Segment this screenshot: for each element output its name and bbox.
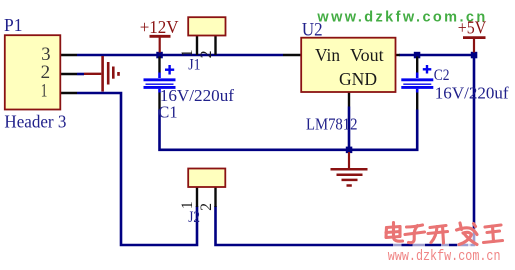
svg-text:1: 1 [179,49,196,57]
svg-text:+12V: +12V [140,17,179,37]
svg-text:P1: P1 [4,15,23,35]
svg-text:1: 1 [179,201,196,209]
svg-text:Header 3: Header 3 [4,112,66,132]
svg-text:16V/220uf: 16V/220uf [160,86,235,105]
svg-text:1: 1 [41,81,48,102]
svg-text:Vin: Vin [315,45,340,65]
svg-text:GND: GND [339,69,377,89]
svg-text:C2: C2 [434,67,450,84]
svg-text:C1: C1 [158,103,177,122]
svg-text:www.dzkfw.com.cn: www.dzkfw.com.cn [388,249,501,265]
svg-text:2: 2 [198,203,215,211]
svg-text:LM7812: LM7812 [306,115,358,134]
svg-text:2: 2 [198,51,215,59]
svg-text:16V/220uf: 16V/220uf [435,83,509,102]
svg-text:Vout: Vout [350,45,384,65]
